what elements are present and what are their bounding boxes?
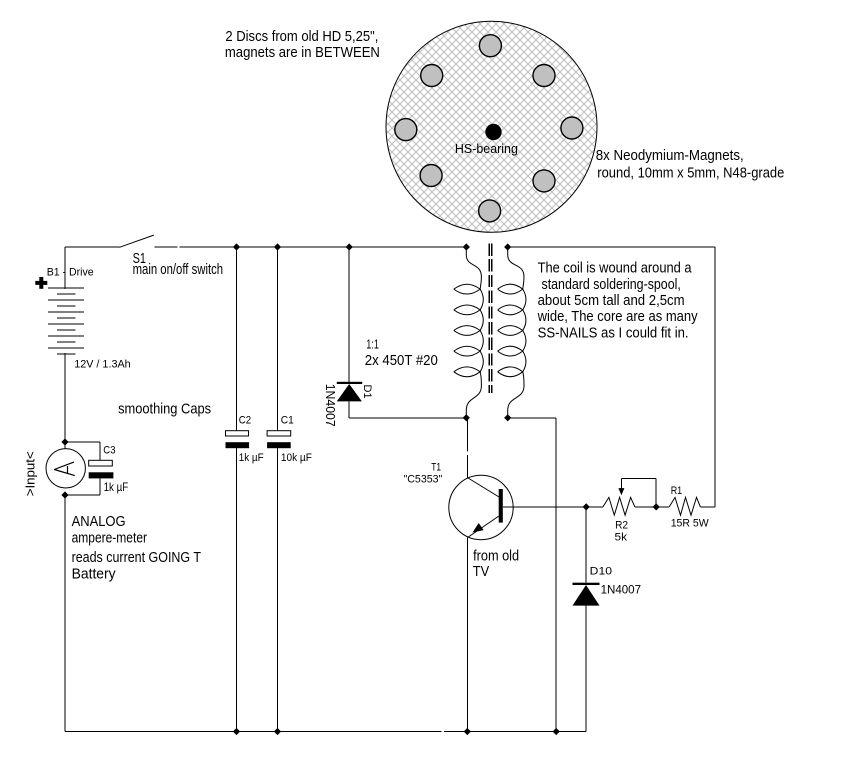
svg-text:R2: R2 [615, 520, 628, 532]
svg-text:ampere-meter: ampere-meter [72, 531, 148, 547]
wire top rail right [508, 246, 715, 248]
label 2x 450T #20 [365, 353, 438, 369]
svg-text:C2: C2 [239, 415, 251, 427]
node ammeter top [61, 438, 68, 445]
svg-text:1k µF: 1k µF [104, 480, 129, 494]
wire top rail to transformer [179, 246, 466, 248]
svg-text:main on/off switch: main on/off switch [133, 262, 224, 278]
label T1 [431, 461, 441, 473]
note: magnets annotation [596, 148, 785, 181]
label 15R 5W [671, 517, 710, 529]
label D1 (rotated) [361, 385, 373, 399]
capacitor C1 [267, 247, 291, 732]
magnet M1 (top) [479, 35, 501, 57]
label 10k uF (C1) [281, 452, 312, 464]
wire ammeter to bottom rail [64, 495, 66, 732]
svg-text:The coil is wound around a: The coil is wound around a [538, 261, 692, 277]
magnet M8 (bottom) [479, 200, 501, 222]
svg-text:standard soldering-spool,: standard soldering-spool, [542, 277, 681, 293]
node R2 / R1 / wiper [653, 503, 660, 510]
svg-text:10k µF: 10k µF [281, 452, 312, 464]
label smoothing Caps [118, 401, 211, 417]
magnet M7 (lower-right) [533, 170, 555, 192]
svg-text:SS-NAILS as I could fit in.: SS-NAILS as I could fit in. [538, 325, 689, 341]
svg-text:2x 450T #20: 2x 450T #20 [365, 353, 438, 369]
label R2 [615, 520, 628, 532]
wire secondary bottom to drop [508, 417, 557, 419]
label main on/off switch [133, 262, 224, 278]
label 1N4007 (D1, rotated) [323, 384, 337, 427]
magnet M6 (lower-left) [420, 165, 442, 187]
label 12V / 1.3Ah [74, 358, 131, 370]
node base / D10 [583, 503, 590, 510]
label C1 [281, 415, 294, 427]
svg-text:about 5cm tall and 2,5cm: about 5cm tall and 2,5cm [538, 293, 685, 309]
label B1 - Drive [47, 267, 94, 279]
svg-text:1k µF: 1k µF [239, 452, 264, 464]
HS-bearing hub dot [485, 124, 501, 140]
wire emitter to bottom rail [466, 537, 468, 731]
magnet M2 (upper-left) [421, 65, 443, 87]
svg-text:>Input<: >Input< [24, 451, 38, 496]
svg-text:C1: C1 [281, 415, 294, 427]
node bottom rail / secondary return [553, 728, 560, 735]
label C3 [103, 445, 115, 457]
svg-text:round, 10mm x 5mm, N48-grade: round, 10mm x 5mm, N48-grade [597, 166, 784, 182]
label >Input< (rotated) [24, 451, 38, 496]
svg-text:D1: D1 [361, 385, 373, 399]
svg-text:5k: 5k [615, 532, 628, 544]
label "C5353" [404, 474, 443, 486]
node ammeter bottom [61, 491, 68, 498]
svg-text:12V / 1.3Ah: 12V / 1.3Ah [74, 358, 131, 370]
svg-text:C3: C3 [103, 445, 115, 457]
battery plus sign [35, 277, 47, 289]
wire base to R2 [503, 506, 603, 508]
node transformer primary bottom [463, 414, 470, 421]
svg-text:T1: T1 [431, 461, 441, 473]
node bottom rail / C1 [274, 728, 281, 735]
wire battery bottom to ammeter [64, 353, 66, 449]
wire rail left of switch [65, 246, 120, 248]
svg-text:1:1: 1:1 [366, 336, 379, 351]
svg-text:B1 - Drive: B1 - Drive [47, 267, 94, 279]
node top rail / D1 [346, 243, 353, 250]
svg-text:wide, The core are as many: wide, The core are as many [537, 309, 699, 325]
svg-text:TV: TV [473, 564, 490, 580]
node bottom rail / emitter [464, 728, 471, 735]
svg-text:1N4007: 1N4007 [323, 384, 337, 427]
label 5k [615, 532, 628, 544]
wire R1 to right drop [700, 506, 715, 508]
label from old TV [473, 549, 519, 580]
label S1 [133, 251, 146, 267]
node top rail / C1 [274, 243, 281, 250]
note: analog ammeter annotation [72, 514, 202, 582]
label 1k uF (C3) [104, 480, 129, 494]
wire drop to bottom rail [555, 418, 557, 732]
svg-text:Battery: Battery [72, 566, 117, 582]
svg-text:R1: R1 [671, 485, 683, 497]
R2 wiper arm [618, 478, 656, 507]
svg-text:smoothing Caps: smoothing Caps [118, 401, 211, 417]
wire primary bottom to collector [466, 418, 468, 478]
resistor R2 (rheostat) [603, 497, 635, 515]
label 1:1 [366, 336, 379, 351]
node transformer secondary bottom [504, 414, 511, 421]
transistor T1 [449, 475, 513, 539]
wire R2 to R1 [635, 506, 669, 508]
node transformer primary top [463, 243, 470, 250]
svg-text:magnets are in BETWEEN: magnets are in BETWEEN [225, 45, 380, 61]
transformer core (dashed) [489, 244, 492, 393]
transformer secondary winding [498, 248, 526, 418]
wire bottom rail [65, 731, 586, 733]
magnet M3 (upper-right) [533, 65, 555, 87]
svg-text:2 Discs from old HD 5,25",: 2 Discs from old HD 5,25", [225, 29, 378, 45]
note: 2 discs annotation [225, 29, 380, 61]
wire top rail (switch contact) [154, 246, 177, 248]
ammeter (analog ampere-meter) [46, 449, 85, 488]
resistor R1 [669, 497, 700, 515]
label 1k uF (C2) [239, 452, 264, 464]
svg-text:"C5353": "C5353" [404, 474, 443, 486]
svg-text:D10: D10 [590, 565, 612, 577]
svg-text:from old: from old [473, 549, 519, 565]
diode D10 [573, 507, 600, 732]
svg-text:8x Neodymium-Magnets,: 8x Neodymium-Magnets, [596, 148, 744, 164]
label HS-bearing [455, 142, 518, 156]
label R1 [671, 485, 683, 497]
capacitor C3 [65, 442, 113, 495]
wire D1 to transformer bottom [349, 417, 466, 419]
rotor disc (2 HD discs with magnets) [386, 21, 597, 232]
svg-text:1N4007: 1N4007 [601, 583, 642, 597]
diode D1 [337, 247, 362, 418]
magnet M5 (right) [561, 117, 583, 139]
svg-text:ANALOG: ANALOG [72, 514, 126, 530]
svg-text:HS-bearing: HS-bearing [455, 142, 518, 156]
magnet M4 (left) [395, 119, 417, 141]
node bottom rail / C2 [233, 728, 240, 735]
switch S1 blade [120, 235, 154, 247]
capacitor C2 [226, 247, 250, 732]
note: coil annotation [537, 261, 699, 342]
transformer primary winding [454, 248, 484, 418]
label D10 [590, 565, 612, 577]
svg-text:15R 5W: 15R 5W [671, 517, 710, 529]
node top rail / C2 [233, 243, 240, 250]
label 1N4007 (D10) [601, 583, 642, 597]
label C2 [239, 415, 251, 427]
wire right drop to R1 [714, 247, 716, 507]
svg-text:reads current GOING T: reads current GOING T [72, 550, 202, 566]
node transformer secondary top [504, 243, 511, 250]
battery B1 [48, 288, 84, 354]
wire battery top to rail [64, 247, 66, 289]
